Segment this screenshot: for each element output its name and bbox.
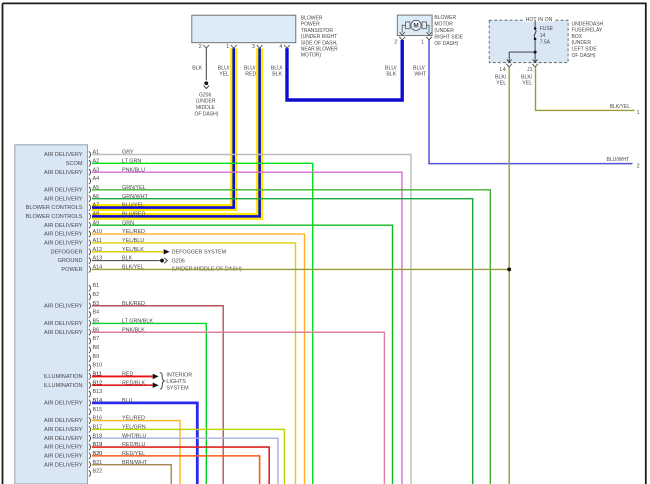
- svg-text:NEAR BLOWER: NEAR BLOWER: [301, 47, 338, 53]
- svg-text:INTERIOR: INTERIOR: [166, 373, 192, 379]
- wire RED B11: [92, 375, 153, 377]
- blower power transistor box: [192, 15, 296, 43]
- svg-text:BLU/: BLU/: [218, 65, 230, 71]
- svg-text:B19: B19: [93, 442, 103, 448]
- svg-text:14: 14: [540, 33, 546, 39]
- wire GRN/YEL A5: [92, 190, 490, 484]
- svg-text:7.5A: 7.5A: [540, 40, 551, 46]
- svg-text:L4: L4: [500, 67, 506, 73]
- svg-text:ILLUMINATION: ILLUMINATION: [44, 374, 83, 380]
- transistor pins 2 1 3 4: [203, 45, 209, 48]
- svg-text:B9: B9: [93, 354, 100, 360]
- svg-text:BLK: BLK: [272, 72, 282, 78]
- svg-text:B12: B12: [93, 380, 103, 386]
- svg-text:AIR DELIVERY: AIR DELIVERY: [44, 196, 83, 202]
- svg-text:BLOWER CONTROLS: BLOWER CONTROLS: [26, 205, 83, 211]
- wire BRN/WHT B21: [92, 465, 171, 484]
- wire GRY A1: [92, 155, 411, 484]
- svg-text:4: 4: [279, 44, 282, 50]
- wire BLU/YEL transistor pin1 to A7: [92, 48, 234, 207]
- svg-text:BLU/: BLU/: [244, 65, 256, 71]
- svg-text:SCOM: SCOM: [66, 161, 83, 167]
- wire GRN/WHT A6: [92, 199, 473, 484]
- svg-text:RIGHT SIDE: RIGHT SIDE: [434, 35, 463, 41]
- wire BLK transistor pin2 to G206: [205, 48, 207, 80]
- svg-text:OF DASH): OF DASH): [195, 111, 219, 117]
- svg-text:M: M: [413, 23, 418, 30]
- svg-text:POWER: POWER: [301, 22, 320, 28]
- svg-text:AIR DELIVERY: AIR DELIVERY: [44, 427, 83, 433]
- svg-text:YEL: YEL: [219, 72, 229, 78]
- svg-text:BLU/RED: BLU/RED: [122, 211, 145, 217]
- svg-text:AIR DELIVERY: AIR DELIVERY: [44, 152, 83, 158]
- svg-text:BOX: BOX: [572, 34, 583, 40]
- svg-text:AIR DELIVERY: AIR DELIVERY: [44, 445, 83, 451]
- svg-text:BLK/: BLK/: [495, 74, 507, 80]
- svg-text:A8: A8: [93, 211, 100, 217]
- svg-text:YEL: YEL: [496, 81, 506, 87]
- svg-text:RED: RED: [245, 72, 256, 78]
- svg-text:BLK: BLK: [386, 72, 396, 78]
- svg-text:AIR DELIVERY: AIR DELIVERY: [44, 187, 83, 193]
- svg-text:AIR DELIVERY: AIR DELIVERY: [44, 241, 83, 247]
- svg-text:MOTOR): MOTOR): [301, 53, 322, 59]
- svg-text:MOTOR: MOTOR: [434, 22, 453, 28]
- svg-text:RED/YEL: RED/YEL: [122, 451, 145, 457]
- svg-text:B4: B4: [93, 310, 100, 316]
- svg-text:J1: J1: [527, 67, 533, 73]
- svg-text:B2: B2: [93, 292, 100, 298]
- svg-text:BLU/: BLU/: [271, 65, 283, 71]
- svg-text:AIR DELIVERY: AIR DELIVERY: [44, 232, 83, 238]
- svg-text:YEL/RED: YEL/RED: [122, 229, 145, 235]
- wire BLK/YEL fuse L4 down: [508, 67, 510, 484]
- interior lights system brace: [160, 373, 165, 390]
- svg-text:AIR DELIVERY: AIR DELIVERY: [44, 453, 83, 459]
- svg-text:B15: B15: [93, 407, 103, 413]
- svg-text:SIDE OF DASH,: SIDE OF DASH,: [301, 40, 338, 46]
- wire YEL/RED A10: [92, 234, 305, 484]
- svg-text:B11: B11: [93, 372, 102, 378]
- svg-text:B8: B8: [93, 345, 100, 351]
- svg-text:RED: RED: [122, 372, 133, 378]
- svg-text:OF DASH): OF DASH): [572, 53, 596, 59]
- wire YEL/GRN B17: [92, 429, 284, 484]
- wire RED/BLK B12: [92, 384, 153, 386]
- svg-text:AIR DELIVERY: AIR DELIVERY: [44, 223, 83, 229]
- svg-text:DEFOGGER SYSTEM: DEFOGGER SYSTEM: [172, 250, 227, 256]
- svg-text:HOT IN ON: HOT IN ON: [526, 17, 553, 23]
- svg-text:(UNDER: (UNDER: [434, 28, 454, 34]
- svg-text:MIDDLE: MIDDLE: [196, 105, 216, 111]
- svg-text:GRN/WHT: GRN/WHT: [122, 194, 148, 200]
- svg-text:GRN: GRN: [122, 220, 134, 226]
- wire BLK/RED B3: [92, 306, 223, 484]
- svg-text:AIR DELIVERY: AIR DELIVERY: [44, 170, 83, 176]
- svg-text:LIGHTS: LIGHTS: [166, 379, 186, 385]
- svg-text:BLU/WHT: BLU/WHT: [607, 157, 630, 163]
- svg-text:1: 1: [637, 110, 640, 116]
- wire BLK/YEL A14 to junction: [92, 268, 509, 270]
- wire RED/YEL B20: [92, 456, 260, 484]
- svg-text:WHT: WHT: [414, 72, 427, 78]
- svg-text:GRY: GRY: [122, 150, 134, 156]
- blower motor box: [397, 15, 432, 35]
- svg-text:BLU: BLU: [122, 398, 133, 404]
- svg-text:AIR DELIVERY: AIR DELIVERY: [44, 418, 83, 424]
- svg-text:1: 1: [226, 44, 229, 50]
- svg-text:(UNDER RIGHT: (UNDER RIGHT: [301, 34, 337, 40]
- svg-text:PNK/BLU: PNK/BLU: [122, 167, 145, 173]
- fuse box pins L4 J1: [506, 64, 512, 67]
- svg-text:(UNDER: (UNDER: [572, 40, 592, 46]
- svg-text:B13: B13: [93, 389, 103, 395]
- ground G206 at A13: [160, 259, 164, 263]
- connector pins A1-A14 B1-B22: [89, 151, 91, 157]
- svg-text:YEL/RED: YEL/RED: [122, 416, 145, 422]
- wire BLU/WHT blower motor pin1 to right edge: [429, 40, 633, 164]
- wire BLK/YEL fuse J1 to right edge: [536, 67, 635, 110]
- HOT IN ON label: [524, 16, 555, 21]
- svg-text:3: 3: [252, 44, 255, 50]
- svg-text:ILLUMINATION: ILLUMINATION: [44, 383, 83, 389]
- svg-text:A7: A7: [93, 203, 100, 209]
- svg-text:B10: B10: [93, 363, 103, 369]
- svg-text:TRANSISTOR: TRANSISTOR: [301, 28, 334, 34]
- svg-text:FUSE/RELAY: FUSE/RELAY: [572, 28, 603, 34]
- wire BLK A13 to G206: [92, 260, 160, 262]
- wire GRN A9: [92, 225, 393, 484]
- svg-text:2: 2: [394, 40, 397, 46]
- svg-text:POWER: POWER: [61, 267, 82, 273]
- fuse 14 7.5A: [534, 20, 536, 27]
- arrow defogger system: [164, 249, 170, 254]
- wire YEL/BLU A11: [92, 243, 296, 484]
- svg-text:BLOWER CONTROLS: BLOWER CONTROLS: [26, 214, 83, 220]
- svg-text:B20: B20: [93, 451, 103, 457]
- svg-text:A4: A4: [93, 176, 100, 182]
- svg-text:G206: G206: [172, 258, 185, 264]
- svg-text:AIR DELIVERY: AIR DELIVERY: [44, 303, 83, 309]
- svg-text:SYSTEM: SYSTEM: [166, 385, 189, 391]
- junction dot A14 BLK/YEL: [507, 268, 511, 272]
- svg-text:BLU/: BLU/: [413, 65, 425, 71]
- svg-text:AIR DELIVERY: AIR DELIVERY: [44, 462, 83, 468]
- wire WHT/BLU B18: [92, 438, 278, 484]
- svg-text:AIR DELIVERY: AIR DELIVERY: [44, 330, 83, 336]
- svg-text:LT GRN/BLK: LT GRN/BLK: [122, 319, 153, 325]
- svg-text:BLK/YEL: BLK/YEL: [122, 265, 144, 271]
- svg-text:LEFT SIDE: LEFT SIDE: [572, 47, 598, 53]
- svg-text:RED/BLK: RED/BLK: [122, 380, 145, 386]
- svg-text:B22: B22: [93, 469, 103, 475]
- wire YEL/RED B16: [92, 421, 180, 484]
- svg-text:B7: B7: [93, 336, 100, 342]
- svg-text:G206: G206: [199, 92, 211, 98]
- svg-text:RED/BLU: RED/BLU: [122, 442, 145, 448]
- wire LT GRN/BLK B5: [92, 323, 206, 484]
- wire LT GRN A2: [92, 163, 313, 484]
- wire PNK/BLK B6: [92, 332, 384, 484]
- wire BLU/BLK transistor pin4 to blower motor pin2: [287, 40, 402, 100]
- svg-text:LT GRN: LT GRN: [122, 158, 141, 164]
- svg-text:2: 2: [199, 44, 202, 50]
- svg-text:DEFOGGER: DEFOGGER: [50, 249, 82, 255]
- svg-text:1: 1: [421, 40, 424, 46]
- wire BLU/RED transistor pin3 to A8: [92, 48, 260, 216]
- svg-text:BLK: BLK: [122, 256, 133, 262]
- svg-text:BLK/YEL: BLK/YEL: [610, 104, 631, 110]
- wire RED/BLU B19: [92, 447, 269, 484]
- svg-text:BLOWER: BLOWER: [434, 15, 456, 21]
- underdash fuse relay box: [489, 20, 568, 63]
- svg-text:B1: B1: [93, 283, 100, 289]
- svg-text:2: 2: [637, 163, 640, 169]
- svg-text:BRN/WHT: BRN/WHT: [122, 460, 148, 466]
- climate control unit box: [15, 145, 88, 484]
- svg-text:BLU/YEL: BLU/YEL: [122, 203, 144, 209]
- ground G206 under dash: [204, 81, 208, 85]
- svg-text:BLK/RED: BLK/RED: [122, 301, 145, 307]
- svg-text:YEL: YEL: [522, 81, 532, 87]
- blower motor pins 2 1: [399, 37, 405, 40]
- svg-text:BLK/: BLK/: [521, 74, 533, 80]
- svg-text:GROUND: GROUND: [58, 258, 83, 264]
- svg-text:OF DASH): OF DASH): [434, 41, 458, 47]
- svg-text:YEL/GRN: YEL/GRN: [122, 424, 146, 430]
- svg-text:UNDERDASH: UNDERDASH: [572, 21, 604, 27]
- svg-text:(UNDER: (UNDER: [196, 99, 216, 105]
- svg-text:AIR DELIVERY: AIR DELIVERY: [44, 436, 83, 442]
- svg-text:AIR DELIVERY: AIR DELIVERY: [44, 400, 83, 406]
- wire YEL/BLK A12 to defogger: [92, 251, 164, 253]
- svg-text:BLOWER: BLOWER: [301, 16, 323, 22]
- fuse box internal branch: [509, 52, 535, 62]
- svg-text:B14: B14: [93, 398, 103, 404]
- arrows interior lights: [153, 374, 159, 379]
- svg-text:PNK/BLK: PNK/BLK: [122, 327, 145, 333]
- wire BLU B14: [92, 403, 197, 484]
- svg-text:FUSE: FUSE: [540, 26, 554, 32]
- svg-text:YEL/BLU: YEL/BLU: [122, 238, 144, 244]
- svg-text:AIR DELIVERY: AIR DELIVERY: [44, 321, 83, 327]
- wire PNK/BLU A3: [92, 172, 402, 484]
- svg-text:YEL/BLK: YEL/BLK: [122, 247, 144, 253]
- blower motor symbol M: [411, 20, 421, 30]
- svg-text:GRN/YEL: GRN/YEL: [122, 185, 146, 191]
- svg-text:WHT/BLU: WHT/BLU: [122, 433, 146, 439]
- svg-text:BLK: BLK: [192, 65, 202, 71]
- svg-text:BLU/: BLU/: [385, 65, 397, 71]
